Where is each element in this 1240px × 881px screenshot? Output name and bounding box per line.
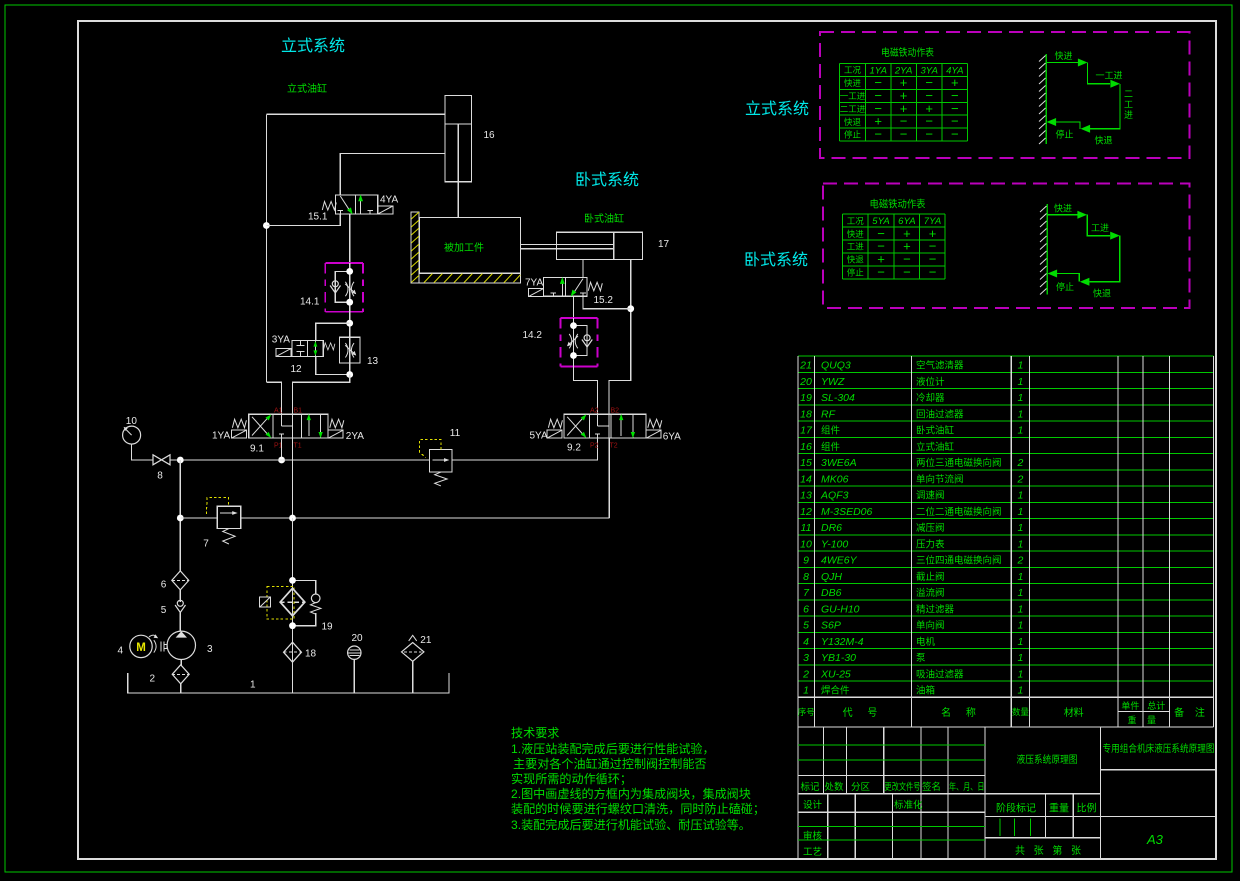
svg-text:5YA: 5YA bbox=[530, 431, 548, 442]
svg-text:9.1: 9.1 bbox=[250, 444, 264, 455]
svg-text:A2: A2 bbox=[590, 408, 599, 415]
svg-text:11: 11 bbox=[450, 428, 461, 439]
svg-text:1: 1 bbox=[1017, 668, 1023, 680]
svg-text:12: 12 bbox=[291, 364, 303, 375]
motor 4 (Y132M-4) bbox=[118, 634, 159, 657]
svg-text:油箱: 油箱 bbox=[916, 685, 935, 697]
svg-text:16: 16 bbox=[484, 130, 496, 141]
svg-text:一工进: 一工进 bbox=[1096, 71, 1123, 81]
svg-text:立式油缸: 立式油缸 bbox=[916, 441, 955, 453]
wire branch to valve 12 bbox=[316, 323, 350, 340]
svg-text:14.2: 14.2 bbox=[523, 330, 543, 341]
svg-text:Y-100: Y-100 bbox=[821, 538, 848, 550]
svg-text:调速阀: 调速阀 bbox=[916, 490, 945, 502]
cycle diagram 1 wall bbox=[1039, 54, 1046, 144]
svg-text:主要对各个油缸通过控制阀控制能否: 主要对各个油缸通过控制阀控制能否 bbox=[513, 756, 707, 771]
svg-text:DR6: DR6 bbox=[821, 522, 842, 534]
svg-text:1: 1 bbox=[803, 685, 809, 697]
svg-text:RF: RF bbox=[821, 408, 836, 420]
svg-text:B1: B1 bbox=[294, 408, 303, 415]
svg-text:20: 20 bbox=[352, 633, 364, 644]
svg-text:总计: 总计 bbox=[1147, 700, 1165, 711]
svg-text:A1: A1 bbox=[274, 408, 283, 415]
svg-text:1: 1 bbox=[1017, 685, 1023, 697]
svg-text:11: 11 bbox=[801, 522, 812, 534]
svg-text:1: 1 bbox=[1017, 652, 1023, 664]
svg-text:签名: 签名 bbox=[922, 781, 941, 793]
svg-text:15.2: 15.2 bbox=[594, 295, 614, 306]
svg-text:立式油缸: 立式油缸 bbox=[287, 82, 327, 95]
action table 1 text bbox=[840, 65, 964, 140]
wire cyl17 right port down bbox=[609, 259, 631, 414]
check valve 5 (S6P) bbox=[161, 600, 186, 616]
level gauge 20 (YWZ) bbox=[348, 633, 363, 693]
svg-text:3.装配完成后要进行机能试验、耐压试验等。: 3.装配完成后要进行机能试验、耐压试验等。 bbox=[511, 817, 751, 832]
shut-off valve 8 (QJH) bbox=[153, 455, 282, 482]
svg-text:19: 19 bbox=[800, 392, 812, 404]
svg-text:液压系统原理图: 液压系统原理图 bbox=[1017, 753, 1078, 766]
svg-text:电磁铁动作表: 电磁铁动作表 bbox=[881, 46, 934, 59]
svg-text:2YA: 2YA bbox=[346, 431, 364, 442]
svg-text:16: 16 bbox=[800, 441, 812, 453]
svg-text:2: 2 bbox=[1016, 555, 1023, 567]
svg-text:电磁铁动作表: 电磁铁动作表 bbox=[870, 198, 926, 211]
svg-text:T1: T1 bbox=[294, 443, 302, 450]
svg-text:4WE6Y: 4WE6Y bbox=[821, 555, 858, 567]
svg-text:冷却器: 冷却器 bbox=[916, 392, 945, 404]
integrated block dashed border 1 bbox=[820, 32, 1189, 158]
svg-text:溢流阀: 溢流阀 bbox=[916, 587, 945, 599]
svg-text:装配的时候要进行螺纹口清洗，同时防止磕碰；: 装配的时候要进行螺纹口清洗，同时防止磕碰； bbox=[511, 801, 765, 816]
svg-text:1: 1 bbox=[1017, 620, 1023, 632]
svg-text:处数: 处数 bbox=[825, 781, 845, 793]
svg-text:M-3SED06: M-3SED06 bbox=[821, 506, 873, 518]
svg-text:17: 17 bbox=[658, 239, 670, 250]
svg-text:SL-304: SL-304 bbox=[821, 392, 855, 404]
svg-text:液位计: 液位计 bbox=[916, 376, 945, 388]
svg-text:−: − bbox=[877, 265, 885, 280]
wire T2 down to drain line bbox=[608, 438, 610, 518]
valve 15.1 (3WE6A) bbox=[308, 195, 398, 223]
svg-text:14: 14 bbox=[800, 473, 812, 485]
cycle diagram 1 path bbox=[1046, 63, 1120, 129]
svg-text:5: 5 bbox=[161, 605, 167, 616]
svg-text:YB1-30: YB1-30 bbox=[821, 652, 856, 664]
svg-text:重 量: 重 量 bbox=[1127, 715, 1160, 726]
svg-text:电机: 电机 bbox=[916, 636, 936, 648]
svg-text:快进: 快进 bbox=[847, 229, 865, 239]
svg-text:6: 6 bbox=[161, 580, 167, 591]
one-way throttle 14.1 (MK06) bbox=[300, 263, 363, 312]
fine filter 6 (GU-H10) bbox=[161, 571, 189, 591]
pressure line to P2 bbox=[452, 438, 597, 460]
svg-text:泵: 泵 bbox=[916, 653, 926, 664]
cylinder 16 (立式油缸) bbox=[445, 95, 495, 217]
svg-text:1.液压站装配完成后要进行性能试验，: 1.液压站装配完成后要进行性能试验， bbox=[511, 741, 715, 756]
svg-text:YWZ: YWZ bbox=[821, 376, 845, 388]
svg-text:停止: 停止 bbox=[1056, 128, 1074, 139]
svg-text:快进: 快进 bbox=[844, 78, 862, 88]
svg-text:阶段标记: 阶段标记 bbox=[996, 802, 1036, 815]
svg-text:工况: 工况 bbox=[847, 216, 865, 226]
svg-text:15.1: 15.1 bbox=[308, 212, 328, 223]
svg-text:工进: 工进 bbox=[847, 242, 865, 252]
svg-text:1: 1 bbox=[1017, 376, 1023, 388]
cooler 19 (SL-304) with bypass bbox=[260, 577, 333, 633]
svg-text:10: 10 bbox=[126, 416, 138, 427]
node on cyl17 right wire bbox=[627, 305, 634, 312]
node bottom of 12/13 bbox=[346, 371, 353, 378]
wire cylinder16 cap port to left branch bbox=[266, 113, 445, 115]
svg-text:AQF3: AQF3 bbox=[820, 490, 849, 502]
svg-text:快退: 快退 bbox=[844, 117, 862, 127]
svg-text:吸油过滤器: 吸油过滤器 bbox=[916, 668, 964, 680]
wire valve 12 bottom bbox=[316, 357, 350, 375]
svg-text:压力表: 压力表 bbox=[916, 538, 945, 550]
svg-text:4YA: 4YA bbox=[380, 195, 398, 206]
node junction left branch y225 bbox=[263, 222, 270, 229]
svg-text:1: 1 bbox=[1017, 571, 1023, 583]
tank 1 (油箱) bbox=[128, 673, 449, 693]
svg-text:4: 4 bbox=[803, 636, 809, 648]
wire pump column bbox=[179, 460, 181, 571]
svg-text:标准化: 标准化 bbox=[894, 799, 923, 811]
reducing valve 11 (DR6) bbox=[420, 428, 461, 486]
svg-text:−: − bbox=[929, 265, 937, 280]
svg-text:1: 1 bbox=[1017, 360, 1023, 372]
cycle diagram 1 labels bbox=[1055, 50, 1134, 146]
svg-text:6: 6 bbox=[803, 603, 809, 615]
title block labels bbox=[801, 781, 1097, 858]
svg-text:3YA: 3YA bbox=[272, 335, 290, 346]
svg-text:工况: 工况 bbox=[844, 65, 862, 75]
BOM header labels bbox=[798, 700, 1209, 726]
svg-text:M: M bbox=[136, 642, 146, 654]
workpiece 被加工件 bbox=[411, 212, 521, 283]
svg-text:8: 8 bbox=[803, 571, 809, 583]
svg-text:立式系统: 立式系统 bbox=[281, 37, 345, 55]
svg-text:2: 2 bbox=[1016, 457, 1023, 469]
pump suction filter 2 (XU-25) bbox=[150, 665, 190, 685]
svg-text:快退: 快退 bbox=[847, 255, 865, 265]
svg-text:两位三通电磁换向阀: 两位三通电磁换向阀 bbox=[916, 457, 1002, 469]
svg-text:1: 1 bbox=[1017, 408, 1023, 420]
svg-text:快退: 快退 bbox=[1093, 288, 1111, 299]
svg-text:T2: T2 bbox=[610, 443, 618, 450]
svg-text:重量: 重量 bbox=[1049, 802, 1069, 815]
air filter 21 (QUQ3) bbox=[402, 635, 432, 693]
svg-text:二: 二 bbox=[1124, 89, 1133, 99]
svg-text:序号: 序号 bbox=[798, 707, 815, 717]
coupling motor-pump bbox=[154, 640, 167, 652]
svg-text:GU-H10: GU-H10 bbox=[821, 603, 860, 615]
action table 2 text bbox=[847, 216, 942, 278]
action table 2 grid bbox=[842, 214, 945, 279]
svg-text:Y132M-4: Y132M-4 bbox=[821, 636, 864, 648]
svg-text:审核: 审核 bbox=[803, 830, 823, 842]
wire cylinder16 rod port bbox=[340, 154, 445, 196]
node pump/pressure junction bbox=[177, 457, 184, 464]
pressure line to reducing valve 11 bbox=[282, 459, 430, 461]
svg-text:卧式油缸: 卧式油缸 bbox=[916, 425, 955, 437]
svg-text:共 张 第 张: 共 张 第 张 bbox=[1015, 844, 1081, 857]
svg-text:比例: 比例 bbox=[1077, 802, 1097, 815]
wire filter6 to pump bbox=[179, 590, 181, 631]
svg-text:卧式系统: 卧式系统 bbox=[575, 171, 639, 189]
svg-text:13: 13 bbox=[367, 356, 379, 367]
svg-text:13: 13 bbox=[800, 490, 812, 502]
svg-text:QJH: QJH bbox=[821, 571, 842, 583]
svg-text:标记: 标记 bbox=[801, 781, 821, 793]
return line down to tank bbox=[292, 518, 294, 693]
svg-text:工进: 工进 bbox=[1091, 223, 1109, 233]
svg-text:3WE6A: 3WE6A bbox=[821, 457, 857, 469]
svg-text:二位二通电磁换向阀: 二位二通电磁换向阀 bbox=[916, 506, 1002, 518]
return filter 18 (RF) bbox=[284, 642, 317, 662]
one-way throttle 14.2 (MK06) bbox=[523, 318, 598, 366]
action table 1 grid bbox=[840, 63, 968, 141]
svg-text:2.图中画虚线的方框内为集成阀块，集成阀块: 2.图中画虚线的方框内为集成阀块，集成阀块 bbox=[511, 786, 751, 801]
svg-text:进: 进 bbox=[1124, 110, 1133, 120]
pump 3 (YB1-30) bbox=[167, 631, 213, 693]
svg-text:快进: 快进 bbox=[1054, 202, 1072, 213]
svg-text:专用组合机床液压系统原理图: 专用组合机床液压系统原理图 bbox=[1103, 742, 1215, 755]
pressure gauge 10 (Y-100) bbox=[123, 416, 153, 460]
svg-text:18: 18 bbox=[305, 649, 317, 660]
svg-text:工艺: 工艺 bbox=[803, 847, 822, 858]
title block structure white lines bbox=[798, 727, 1216, 859]
svg-text:2: 2 bbox=[1016, 473, 1023, 485]
svg-text:1: 1 bbox=[1017, 506, 1023, 518]
svg-text:年、月、日: 年、月、日 bbox=[949, 781, 985, 793]
svg-text:19: 19 bbox=[322, 622, 334, 633]
svg-text:7YA: 7YA bbox=[525, 277, 543, 288]
svg-text:2: 2 bbox=[802, 668, 809, 680]
technical requirements text bbox=[511, 726, 765, 832]
cylinder 17 (卧式油缸) bbox=[521, 232, 670, 259]
svg-text:卧式油缸: 卧式油缸 bbox=[584, 212, 624, 225]
svg-text:−: − bbox=[951, 126, 959, 141]
svg-text:快退: 快退 bbox=[1095, 135, 1113, 146]
cycle diagram 2 wall bbox=[1040, 204, 1047, 294]
svg-text:A3: A3 bbox=[1146, 832, 1164, 847]
svg-text:1: 1 bbox=[250, 680, 256, 691]
svg-text:一工进: 一工进 bbox=[840, 91, 866, 101]
svg-text:1: 1 bbox=[1017, 587, 1023, 599]
svg-text:组件: 组件 bbox=[821, 425, 841, 437]
svg-text:停止: 停止 bbox=[847, 268, 865, 278]
svg-text:回油过滤器: 回油过滤器 bbox=[916, 408, 964, 420]
svg-text:8: 8 bbox=[157, 471, 163, 482]
wire T1 down to drain line bbox=[292, 438, 294, 518]
svg-text:1: 1 bbox=[1017, 636, 1023, 648]
svg-text:工: 工 bbox=[1124, 100, 1133, 110]
svg-text:2: 2 bbox=[150, 674, 156, 685]
svg-text:9.2: 9.2 bbox=[567, 443, 581, 454]
svg-text:单件: 单件 bbox=[1121, 700, 1139, 711]
svg-text:7: 7 bbox=[203, 539, 209, 550]
valve 9.2 (4WE6Y) bbox=[530, 408, 682, 454]
svg-text:组件: 组件 bbox=[821, 441, 841, 453]
svg-text:材料: 材料 bbox=[1064, 706, 1084, 719]
drain line y518 bbox=[241, 517, 610, 519]
wire valve15.1 bottom port down bbox=[349, 214, 351, 263]
svg-text:空气滤清器: 空气滤清器 bbox=[916, 360, 964, 372]
svg-text:技术要求: 技术要求 bbox=[511, 726, 559, 740]
svg-text:1: 1 bbox=[1017, 538, 1023, 550]
BOM names (column 名称) bbox=[916, 360, 1002, 697]
svg-text:停止: 停止 bbox=[1056, 281, 1074, 292]
svg-text:DB6: DB6 bbox=[821, 587, 842, 599]
svg-text:备 注: 备 注 bbox=[1174, 706, 1209, 719]
svg-text:截止阀: 截止阀 bbox=[916, 571, 945, 583]
title block green lines bbox=[798, 745, 1030, 840]
svg-text:名 称: 名 称 bbox=[941, 706, 982, 719]
BOM codes (column 代号) bbox=[820, 360, 873, 697]
svg-text:1: 1 bbox=[1017, 425, 1023, 437]
wire valve15.2 right port to cyl wire bbox=[583, 296, 631, 309]
svg-text:9: 9 bbox=[803, 555, 809, 567]
wire 14.1 to node bbox=[349, 312, 351, 375]
BOM quantities (column 数量) bbox=[1016, 360, 1023, 697]
wire valve15.1 left port to left branch bbox=[266, 214, 340, 226]
svg-text:数量: 数量 bbox=[1012, 707, 1030, 717]
svg-text:P2: P2 bbox=[590, 443, 599, 450]
svg-text:20: 20 bbox=[799, 376, 812, 388]
svg-text:更改文件号: 更改文件号 bbox=[885, 781, 921, 793]
svg-text:21: 21 bbox=[799, 360, 812, 372]
speed regulating valve 13 (AQF3) bbox=[340, 337, 379, 367]
svg-text:−: − bbox=[874, 126, 882, 141]
wire cyl17 left port down to valve 15.2 bbox=[582, 259, 584, 277]
svg-text:三位四通电磁换向阀: 三位四通电磁换向阀 bbox=[916, 555, 1002, 567]
svg-text:5: 5 bbox=[803, 620, 809, 632]
wire down to valve 9.1 B1 bbox=[293, 375, 350, 415]
svg-text:3: 3 bbox=[803, 652, 809, 664]
svg-text:12: 12 bbox=[800, 506, 812, 518]
svg-text:立式系统: 立式系统 bbox=[745, 100, 809, 118]
svg-text:单向阀: 单向阀 bbox=[916, 620, 945, 632]
svg-text:S6P: S6P bbox=[821, 620, 841, 632]
svg-text:MK06: MK06 bbox=[821, 473, 849, 485]
svg-text:减压阀: 减压阀 bbox=[916, 522, 945, 534]
svg-text:焊合件: 焊合件 bbox=[821, 685, 850, 697]
wire left branch to valve 9.1 A1 bbox=[266, 382, 281, 414]
svg-text:−: − bbox=[925, 126, 933, 141]
svg-text:设计: 设计 bbox=[803, 799, 823, 811]
node top of 12/13 bbox=[346, 320, 353, 327]
relief valve 7 (DB6) bbox=[180, 498, 240, 550]
svg-text:18: 18 bbox=[800, 408, 812, 420]
svg-text:1: 1 bbox=[1017, 522, 1023, 534]
svg-text:单向节流阀: 单向节流阀 bbox=[916, 473, 964, 485]
svg-text:XU-25: XU-25 bbox=[820, 668, 851, 680]
svg-text:卧式系统: 卧式系统 bbox=[744, 251, 808, 269]
svg-text:1: 1 bbox=[1017, 392, 1023, 404]
svg-text:QUQ3: QUQ3 bbox=[821, 360, 851, 372]
cycle diagram 2 path bbox=[1047, 215, 1120, 282]
svg-text:1: 1 bbox=[1017, 490, 1023, 502]
BOM vertical column lines (white) bbox=[798, 356, 1214, 727]
svg-text:4: 4 bbox=[118, 646, 124, 657]
svg-text:6YA: 6YA bbox=[663, 432, 681, 443]
svg-text:3: 3 bbox=[207, 644, 213, 655]
svg-text:−: − bbox=[900, 126, 908, 141]
wire left branch vertical bbox=[265, 114, 267, 382]
svg-text:1: 1 bbox=[1017, 603, 1023, 615]
wire P1 down to pressure line bbox=[281, 438, 283, 460]
svg-text:二工进: 二工进 bbox=[840, 104, 866, 114]
BOM item numbers (column 序号) bbox=[799, 360, 813, 697]
svg-text:精过滤器: 精过滤器 bbox=[916, 603, 955, 615]
integrated block dashed border 2 bbox=[823, 184, 1190, 308]
valve 12 (M-3SED06) bbox=[272, 335, 335, 376]
wire valve15.2 bottom port down bbox=[573, 296, 575, 318]
svg-text:被加工件: 被加工件 bbox=[444, 241, 484, 254]
svg-text:快进: 快进 bbox=[1055, 50, 1073, 61]
svg-text:10: 10 bbox=[800, 538, 812, 550]
svg-text:代 号: 代 号 bbox=[843, 707, 884, 719]
svg-text:14.1: 14.1 bbox=[300, 297, 320, 308]
valve 9.1 (4WE6Y) bbox=[212, 408, 364, 455]
svg-text:停止: 停止 bbox=[844, 130, 862, 140]
svg-text:−: − bbox=[903, 265, 911, 280]
svg-text:1YA: 1YA bbox=[212, 431, 230, 442]
cycle diagram 2 labels bbox=[1054, 202, 1111, 298]
svg-text:17: 17 bbox=[800, 425, 813, 437]
valve 15.2 (3WE6A) bbox=[525, 277, 613, 306]
svg-text:B2: B2 bbox=[611, 408, 620, 415]
svg-text:21: 21 bbox=[420, 635, 432, 646]
svg-text:15: 15 bbox=[800, 457, 812, 469]
svg-text:分区: 分区 bbox=[851, 782, 871, 793]
svg-text:实现所需的动作循环；: 实现所需的动作循环； bbox=[511, 771, 632, 786]
wire 14.2 down to valve 9.2 A2 bbox=[574, 366, 598, 414]
BOM horizontal row lines (green) bbox=[798, 356, 1214, 681]
